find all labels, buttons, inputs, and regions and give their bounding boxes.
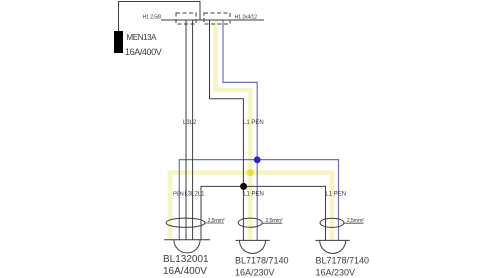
svg-text:BL132001: BL132001 xyxy=(163,254,209,265)
junction PE yellow xyxy=(247,169,254,176)
leader line middle xyxy=(262,222,282,224)
leader line left xyxy=(205,222,224,224)
svg-text:L3L2L1: L3L2L1 xyxy=(185,191,206,197)
wire L2 xyxy=(192,20,194,240)
junction L1 black xyxy=(240,183,247,190)
svg-text:L1 PEN: L1 PEN xyxy=(243,120,264,126)
outlet symbol middle line xyxy=(235,239,269,241)
svg-text:L1 PEN: L1 PEN xyxy=(325,191,346,197)
connector block X1 dashed xyxy=(176,13,196,24)
outlet symbol right line xyxy=(315,239,350,241)
cable marker ellipse middle xyxy=(238,218,262,227)
wire terminal bus xyxy=(161,19,264,21)
svg-text:MEN13A: MEN13A xyxy=(127,33,158,42)
wire L1 distribution row xyxy=(201,186,326,240)
junction PEN blue xyxy=(254,156,261,163)
wire PEN blue distribution row xyxy=(179,160,338,240)
svg-text:16A/230V: 16A/230V xyxy=(316,268,356,278)
wire PE earth yellow distribution row xyxy=(170,173,332,240)
svg-text:16A/230V: 16A/230V xyxy=(235,268,275,278)
svg-text:H1 2x4/12: H1 2x4/12 xyxy=(235,14,258,20)
wire PE earth yellow riser from connector X2 xyxy=(216,20,251,240)
wire L3 xyxy=(185,20,187,240)
cable marker ellipse right xyxy=(320,218,344,227)
svg-text:BL7178/7140: BL7178/7140 xyxy=(235,256,289,266)
outlet symbol middle arc xyxy=(240,240,266,253)
outlet symbol left arc xyxy=(174,240,200,253)
svg-text:L3L2: L3L2 xyxy=(183,120,197,126)
svg-text:16A/400V: 16A/400V xyxy=(125,47,162,57)
connector block X2 dashed xyxy=(204,13,230,24)
device MEN13A body xyxy=(114,31,123,53)
svg-text:PEN: PEN xyxy=(173,191,184,197)
wire PEN blue riser from connector X2 xyxy=(223,20,257,240)
outlet symbol right arc xyxy=(320,240,346,253)
svg-text:BL7178/7140: BL7178/7140 xyxy=(316,256,370,266)
wire feed from MEN13A to terminal bus xyxy=(119,2,201,32)
svg-text:H1 2,5/8: H1 2,5/8 xyxy=(143,14,162,20)
svg-text:L1 PEN: L1 PEN xyxy=(243,192,264,198)
wire L1 riser from connector X2 xyxy=(210,20,244,240)
leader line right xyxy=(344,222,363,224)
cable marker ellipse left xyxy=(166,218,205,227)
outlet symbol left line xyxy=(164,239,210,241)
svg-text:16A/400V: 16A/400V xyxy=(163,266,207,277)
